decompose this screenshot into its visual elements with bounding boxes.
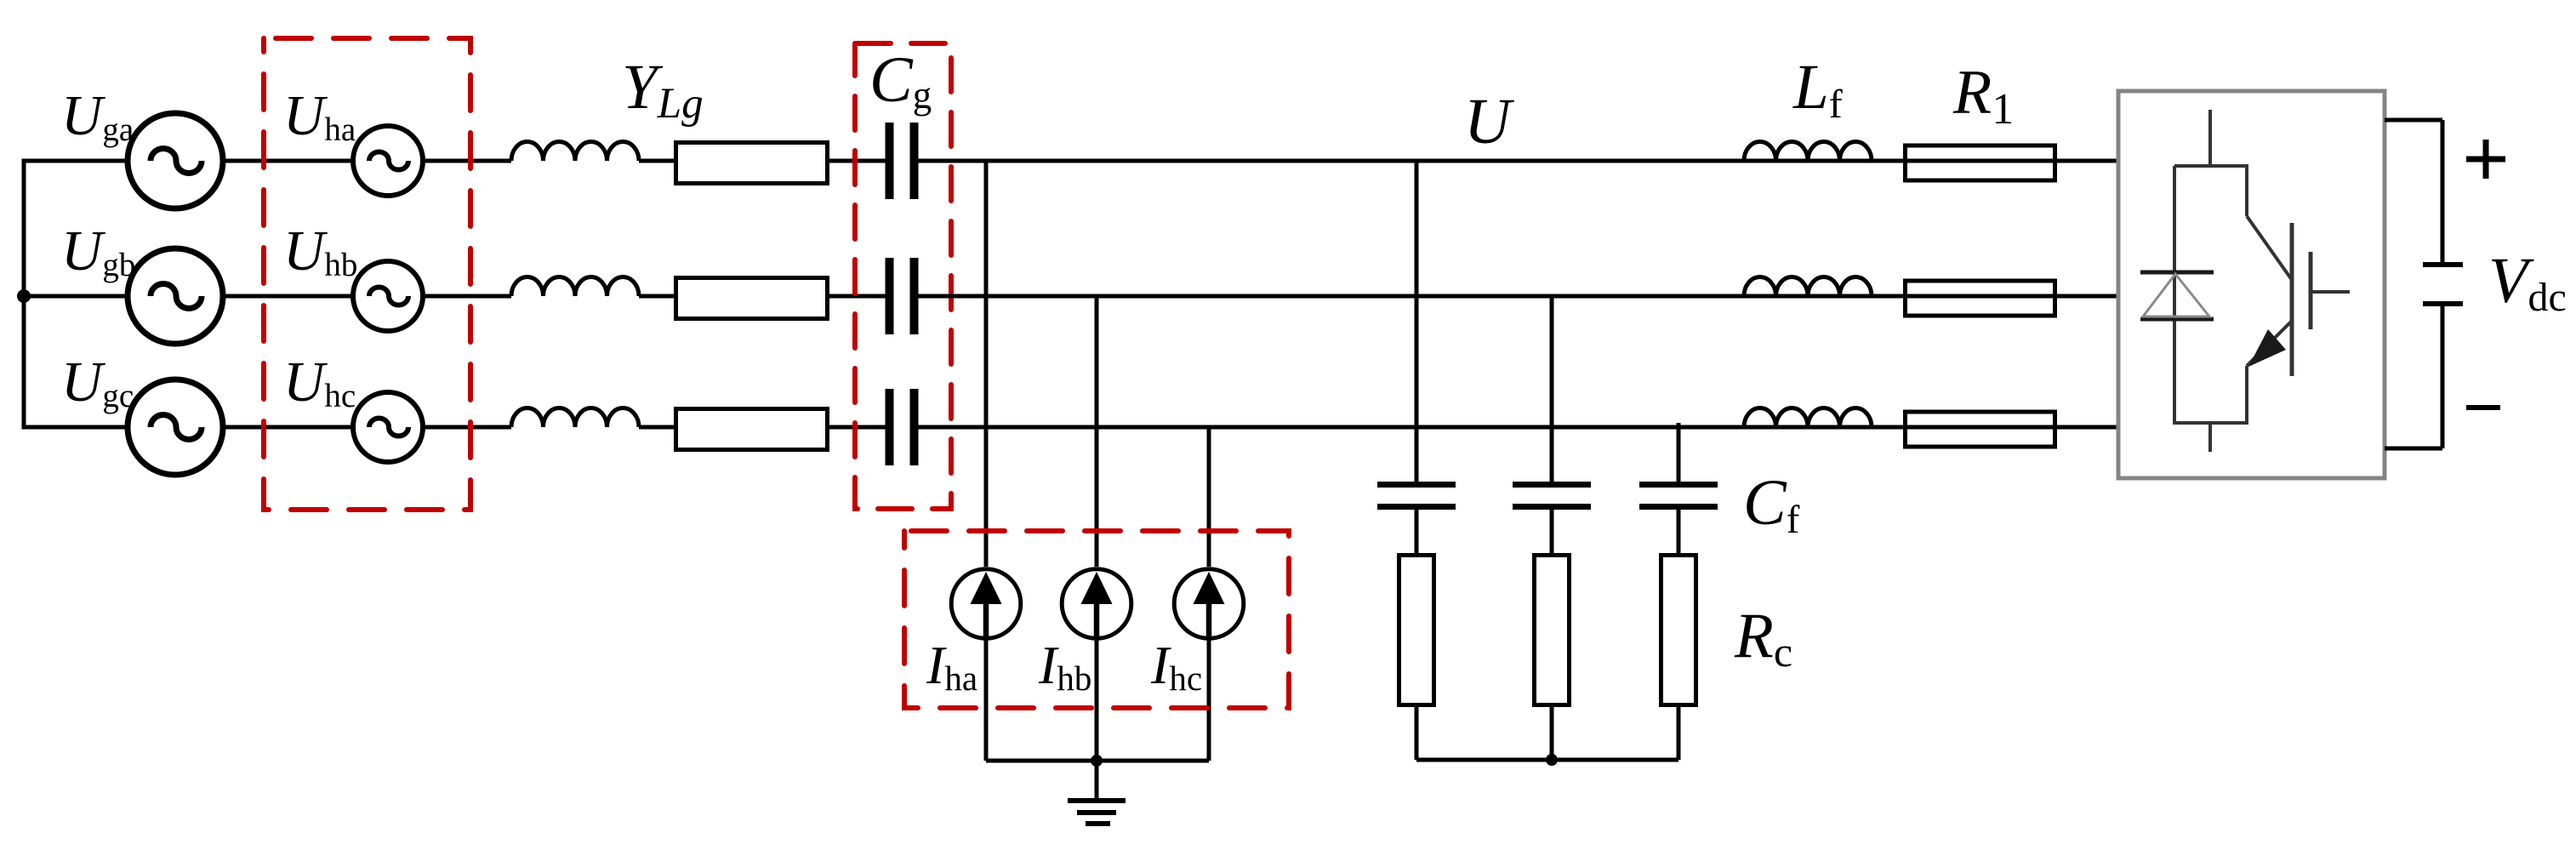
IGBT gate lead: [2311, 290, 2350, 294]
wire row a: Cg to converter: [917, 159, 2120, 163]
capacitor Cg row a: [886, 123, 894, 199]
svg-text:Cg: Cg: [869, 44, 932, 117]
svg-text:Ihc: Ihc: [1150, 635, 1202, 698]
IGBT emitter arrowhead: [2248, 329, 2286, 367]
wire Cf to Rc phase b: [1550, 510, 1554, 556]
wire row b: Rl to converter box: [2057, 294, 2120, 299]
resistor Rl row b: [1906, 281, 2055, 316]
ground symbol: [1095, 761, 1099, 799]
wire row b: Cg to converter: [917, 294, 2120, 299]
filter inductor Lf row c: [1744, 408, 1872, 428]
wire drop row c to current source Ihc: [1207, 427, 1211, 567]
wire left vertical bus: [22, 161, 26, 427]
grid inductor L row c: [511, 408, 639, 428]
filter inductor Lf row b: [1744, 277, 1872, 297]
capacitor Cf phase c: [1639, 482, 1718, 488]
wire drop row b to current source Ihb: [1095, 296, 1099, 567]
wire row c: Rl to converter box: [2057, 425, 2120, 430]
current source Ihc: [1174, 569, 1244, 639]
grid inductor L row a: [511, 142, 639, 161]
current source Iha: [951, 569, 1021, 639]
wire Rc to bottom bus phase c: [1677, 707, 1681, 760]
AC source Uhc (harmonic voltage): [353, 392, 423, 462]
wire DC positive: [2385, 118, 2442, 123]
minus sign: [2466, 405, 2500, 410]
wire drop row c to filter capacitor Cf: [1677, 423, 1681, 482]
svg-text:Lf: Lf: [1792, 52, 1843, 127]
DC-link capacitor: [2423, 262, 2463, 267]
freewheel diode cathode bar: [2140, 271, 2214, 275]
svg-text:Uhb: Uhb: [283, 220, 357, 283]
IGBT collector lead: [2245, 166, 2248, 216]
wire Rc bottom bus: [1416, 758, 1678, 762]
capacitor Cf phase b: [1513, 482, 1591, 488]
resistor Rc phase c: [1661, 556, 1696, 705]
wire row b: Ugb to Uhb: [223, 294, 353, 299]
AC source Uhb (harmonic voltage): [353, 261, 423, 331]
red dashed box: harmonic voltage sources Uh: [264, 38, 470, 510]
grid inductor L row b: [511, 277, 639, 297]
wire below Iha: [984, 638, 989, 761]
resistor YLg row b: [676, 278, 828, 319]
svg-text:Iha: Iha: [926, 635, 977, 698]
wire row b: Lf to Rl: [1873, 294, 1903, 299]
wire below Ihc: [1207, 638, 1211, 761]
svg-text:Uga: Uga: [61, 84, 134, 148]
capacitor Cf phase a: [1377, 482, 1456, 488]
resistor YLg row a: [676, 143, 828, 184]
converter box outline: [2118, 91, 2385, 478]
wire Rc to bottom bus phase b: [1550, 707, 1554, 760]
IGBT collector diagonal: [2247, 216, 2292, 280]
AC source Ugb: [128, 248, 223, 344]
svg-text:U: U: [1464, 86, 1514, 157]
freewheel diode anode bar: [2140, 317, 2214, 322]
wire row a: inductor to resistor YLg: [639, 159, 674, 163]
resistor Rc phase a: [1399, 556, 1434, 705]
wire row c: Cg to converter: [917, 425, 2120, 430]
capacitor Cg row c: [886, 389, 894, 465]
svg-text:YLg: YLg: [622, 52, 704, 128]
red dashed box: grid capacitor Cg: [855, 43, 951, 509]
wire row c: Uhc to grid inductor: [423, 425, 511, 430]
red dashed box: harmonic current sources: [904, 531, 1289, 708]
wire row a: Rl to converter box: [2057, 159, 2120, 163]
wire DC negative: [2441, 304, 2445, 448]
svg-text:Uha: Uha: [283, 84, 356, 148]
IGBT emitter diagonal: [2247, 321, 2292, 366]
resistor Rc phase b: [1535, 556, 1570, 705]
AC source Ugc: [128, 379, 223, 475]
plus sign: [2466, 157, 2505, 163]
wire row c: inductor to resistor YLg: [639, 425, 674, 430]
wire row c: resistor to capacitor Cg: [829, 425, 886, 430]
wire row b: bus to source Ugb: [22, 294, 128, 299]
svg-text:Rc: Rc: [1734, 601, 1792, 676]
svg-text:Cf: Cf: [1743, 467, 1800, 542]
capacitor Cg row b: [886, 258, 894, 334]
wire row a: Lf to Rl: [1873, 159, 1903, 163]
wire row a: bus to source Uga: [22, 159, 128, 163]
resistor Rl row a: [1906, 145, 2055, 180]
wire Rc to bottom bus phase a: [1415, 707, 1419, 760]
wire row c: bus to source Ugc: [22, 425, 128, 430]
svg-text:Vdc: Vdc: [2488, 245, 2567, 320]
wire row a: Uha to grid inductor: [423, 159, 511, 163]
IGBT bottom emitter stem: [2208, 423, 2212, 452]
wire drop row a to current source Iha: [984, 161, 989, 567]
svg-text:Ihb: Ihb: [1038, 635, 1091, 698]
filter inductor Lf row a: [1744, 142, 1872, 161]
node Rc bus junction: [1546, 754, 1558, 766]
svg-text:Ugb: Ugb: [61, 220, 135, 283]
IGBT loop top: [2174, 164, 2248, 168]
wire current sources bottom bus: [986, 759, 1209, 763]
wire Cf to Rc phase a: [1415, 510, 1419, 556]
wire drop row a to filter capacitor Cf: [1415, 161, 1419, 482]
wire below Ihb: [1095, 638, 1099, 761]
svg-text:R1: R1: [1952, 58, 2014, 134]
IGBT loop bottom: [2174, 421, 2248, 425]
node ground junction: [1091, 755, 1103, 767]
wire row c: Lf to Rl: [1873, 425, 1903, 430]
IGBT top collector stem: [2208, 110, 2212, 168]
wire row b: Uhb to grid inductor: [423, 294, 511, 299]
AC source Uha (harmonic voltage): [353, 126, 423, 196]
node neutral junction on left bus: [17, 289, 31, 303]
freewheel diode triangle: [2143, 274, 2209, 317]
wire row b: resistor to capacitor Cg: [829, 294, 886, 299]
current source Ihb: [1062, 569, 1131, 639]
IGBT body bar: [2290, 223, 2294, 376]
wire row c: Ugc to Uhc: [223, 425, 353, 430]
resistor YLg row c: [676, 409, 828, 450]
svg-text:Ugc: Ugc: [61, 351, 134, 414]
wire row a: Uga to Uha: [223, 159, 353, 163]
AC source Uga: [128, 113, 223, 208]
wire row b: inductor to resistor YLg: [639, 294, 674, 299]
wire row a: resistor to capacitor Cg: [829, 159, 886, 163]
IGBT loop left (diode branch): [2173, 166, 2176, 425]
IGBT emitter lead: [2245, 366, 2248, 425]
IGBT gate bar: [2309, 252, 2313, 329]
wire drop row b to filter capacitor Cf: [1550, 296, 1554, 482]
wire Cf to Rc phase c: [1677, 510, 1681, 556]
resistor Rl row c: [1906, 412, 2055, 447]
svg-text:Uhc: Uhc: [283, 351, 356, 414]
